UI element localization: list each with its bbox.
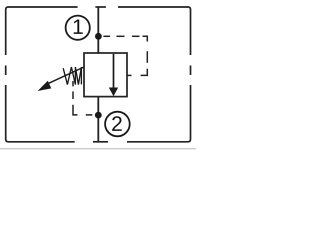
wire: inlet line port 1 bbox=[97, 7, 99, 53]
port 2 label "2" bbox=[112, 116, 122, 131]
port 2 circle bbox=[105, 112, 130, 137]
adjustment arrow through spring bbox=[38, 67, 84, 91]
junction node B bbox=[95, 112, 102, 119]
pilot line (dashed) from node A to valve right side bbox=[103, 36, 147, 75]
valve envelope boundary (rounded rect, segmented) bbox=[6, 7, 191, 142]
adjustable spring bbox=[63, 67, 81, 85]
bottom separator rule bbox=[0, 148, 196, 150]
pilot stub on right of valve bbox=[127, 74, 132, 76]
port 1 circle bbox=[66, 16, 90, 40]
flow arrow inside valve bbox=[109, 54, 118, 96]
junction node A bbox=[95, 33, 102, 40]
port 1 label "1" bbox=[74, 19, 83, 33]
pilot drain line (dashed) from spring to node B bbox=[73, 81, 92, 115]
relief valve envelope square bbox=[84, 53, 127, 97]
wire: outlet line port 2 bbox=[97, 97, 99, 142]
